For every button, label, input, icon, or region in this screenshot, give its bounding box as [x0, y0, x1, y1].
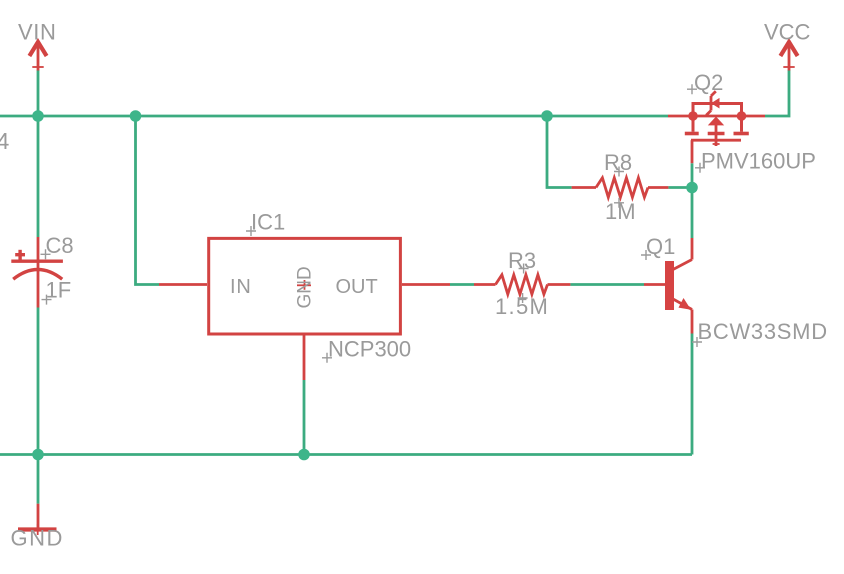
svg-text:R3: R3 [508, 248, 536, 273]
svg-text:R8: R8 [604, 150, 632, 175]
svg-text:1.5M: 1.5M [495, 294, 549, 319]
svg-text:IC1: IC1 [251, 210, 285, 235]
svg-text:PMV160UP: PMV160UP [701, 149, 816, 174]
svg-text:VCC: VCC [764, 20, 811, 45]
svg-text:VIN: VIN [18, 20, 56, 45]
svg-text:4: 4 [0, 128, 10, 154]
svg-text:Q1: Q1 [646, 234, 675, 259]
svg-text:BCW33SMD: BCW33SMD [698, 319, 828, 344]
svg-text:C8: C8 [46, 233, 74, 258]
svg-text:GND: GND [294, 266, 315, 308]
svg-text:GND: GND [11, 526, 64, 551]
svg-text:Q2: Q2 [694, 70, 723, 95]
svg-text:1M: 1M [605, 199, 636, 224]
svg-text:NCP300: NCP300 [328, 337, 411, 362]
svg-text:OUT: OUT [336, 276, 378, 298]
svg-text:1F: 1F [46, 278, 72, 303]
svg-text:IN: IN [230, 276, 252, 298]
